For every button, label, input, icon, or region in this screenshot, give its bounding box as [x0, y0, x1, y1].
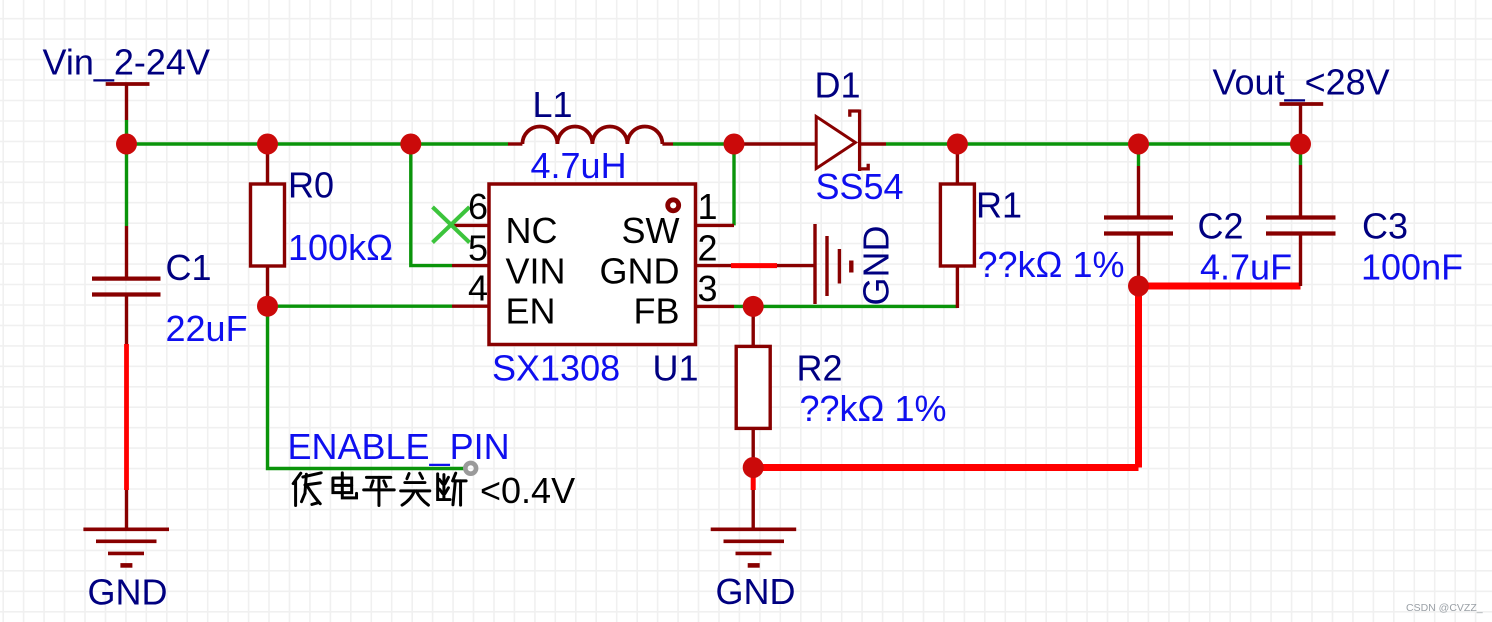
inductor L1 stub left	[508, 142, 522, 145]
ENABLE_PIN endpoint pad	[465, 463, 476, 474]
wire ENABLE down and right	[268, 306, 465, 468]
diode D1 anode wire	[734, 142, 816, 145]
svg-text:SW: SW	[622, 210, 680, 251]
resistor R0 stem top	[266, 144, 269, 184]
resistor R1 stem bottom	[956, 266, 959, 308]
wires red thick	[127, 266, 1301, 490]
wire FB to R1	[734, 305, 957, 308]
svg-text:??kΩ 1%: ??kΩ 1%	[800, 388, 947, 429]
svg-text:R1: R1	[976, 184, 1022, 225]
svg-text:1: 1	[698, 186, 718, 227]
wire C1 to GND red	[124, 344, 129, 490]
svg-text:R0: R0	[288, 164, 334, 205]
wire C3 top green	[1299, 144, 1302, 165]
svg-text:4.7uH: 4.7uH	[531, 145, 627, 186]
node FB junction	[743, 296, 764, 317]
svg-text:L1: L1	[533, 84, 573, 125]
U1 pin 1 stub	[696, 224, 735, 227]
wire U1 pin2 red segment	[731, 263, 777, 268]
node C2 bottom junction	[1128, 276, 1149, 297]
svg-text:SX1308: SX1308	[492, 348, 620, 389]
wire VIN vertical	[411, 144, 452, 266]
svg-text:U1: U1	[653, 348, 699, 389]
wire R2 gnd red stub	[751, 470, 756, 490]
capacitor C1 stub bottom	[125, 297, 128, 345]
svg-text:FB: FB	[633, 291, 679, 332]
ground GND1 stem	[125, 490, 128, 529]
resistor R1 stem top	[956, 144, 959, 184]
svg-text:C2: C2	[1198, 206, 1244, 247]
wires green	[127, 120, 1301, 469]
capacitor C2 stub bottom	[1137, 236, 1140, 287]
ground GND2 bars rotated	[813, 224, 816, 304]
resistor R2 body	[736, 346, 770, 428]
capacitor C3 stub top	[1299, 165, 1302, 216]
wire EN from R0	[268, 305, 453, 308]
inductor L1 humps	[522, 127, 662, 144]
wire C2 to C3 bottom	[1139, 283, 1301, 290]
U1 pin 5 stub	[452, 264, 489, 267]
svg-text:C1: C1	[166, 247, 212, 288]
ground GND3 bars	[711, 527, 797, 531]
svg-text:C3: C3	[1362, 206, 1408, 247]
svg-text:Vout_<28V: Vout_<28V	[1213, 62, 1390, 103]
node R0 top junction	[257, 134, 278, 155]
ground GND3 stem	[752, 490, 755, 529]
wire C2 bottom vertical	[1135, 286, 1142, 468]
capacitor C1 stub top	[125, 226, 128, 277]
svg-text:??kΩ 1%: ??kΩ 1%	[978, 244, 1125, 285]
svg-text:NC: NC	[506, 210, 558, 251]
resistor R2 stem bottom	[752, 428, 755, 470]
wire C2 top green	[1137, 144, 1140, 166]
svg-text:2: 2	[698, 228, 718, 269]
node C2 top junction	[1128, 134, 1149, 155]
diode D1 cathode wire	[860, 142, 886, 145]
capacitor C1 plates	[92, 277, 161, 281]
capacitor C2 plates	[1104, 215, 1173, 219]
capacitor C3 stub bottom	[1299, 236, 1302, 287]
svg-text:5: 5	[468, 228, 488, 269]
svg-text:CSDN @CVZZ_: CSDN @CVZZ_	[1406, 602, 1483, 614]
svg-text:100kΩ: 100kΩ	[288, 227, 393, 268]
node C3/Vout junction	[1290, 134, 1311, 155]
power flag Vout stem	[1299, 104, 1302, 144]
svg-text:GND: GND	[600, 250, 680, 291]
power flag Vin bar	[106, 82, 150, 86]
node Vin/C1 junction	[116, 134, 137, 155]
svg-text:SS54: SS54	[816, 166, 904, 207]
U1 pin 4 stub	[452, 305, 489, 308]
U1 pin 3 stub	[696, 305, 735, 308]
U1 pin1 dot indicator	[668, 200, 679, 211]
wire rail L1 to SW node	[673, 142, 734, 145]
node VIN junction	[400, 134, 421, 155]
svg-text:GND: GND	[856, 226, 897, 306]
node D1/R1 junction	[947, 134, 968, 155]
wire SW vertical	[732, 144, 735, 225]
svg-text:GND: GND	[88, 572, 168, 613]
svg-text:6: 6	[468, 186, 488, 227]
node R2 bottom junction	[743, 457, 764, 478]
resistor R0 stem bottom	[266, 266, 269, 306]
svg-text:VIN: VIN	[506, 250, 566, 291]
svg-text:Vin_2-24V: Vin_2-24V	[43, 41, 210, 82]
svg-text:4.7uF: 4.7uF	[1200, 247, 1292, 288]
inductor L1 stub right	[662, 142, 673, 145]
dark red component strokes	[83, 84, 1335, 565]
ground GND1 bars	[83, 527, 169, 531]
pin numbers	[468, 186, 488, 309]
wire R2 to C2 bottom horizontal	[753, 464, 1138, 471]
U1 pin 2 stub	[696, 264, 732, 267]
resistor R0 body	[251, 184, 285, 266]
svg-text:ENABLE_PIN: ENABLE_PIN	[288, 426, 510, 467]
svg-text:3: 3	[698, 268, 718, 309]
power flag Vin stem	[125, 84, 128, 120]
svg-text:100nF: 100nF	[1361, 247, 1463, 288]
capacitor C2 stub top	[1137, 166, 1140, 216]
diode D1 schottky bar	[850, 110, 868, 172]
node R0 bottom / EN junction	[257, 296, 278, 317]
U1 pin 6 stub	[452, 224, 489, 227]
wire Vin stem green part	[125, 120, 128, 144]
no-connect X on pin 6	[433, 207, 470, 243]
pin names	[506, 210, 566, 332]
wire rail diode cathode to Vout	[886, 142, 1301, 145]
capacitor C3 plates	[1266, 215, 1336, 219]
diode D1 triangle	[816, 117, 855, 169]
svg-text:4: 4	[468, 268, 488, 309]
annotation Chinese text (hand-drawn glyphs)	[293, 473, 466, 506]
node SW/L1/D1 junction	[724, 134, 745, 155]
resistor R2 stem top	[752, 306, 755, 346]
resistor R1 body	[940, 184, 974, 266]
svg-text:D1: D1	[815, 65, 861, 106]
power flag Vout bar	[1280, 102, 1324, 106]
svg-text:22uF: 22uF	[166, 308, 248, 349]
svg-text:EN: EN	[506, 291, 556, 332]
IC U1 SX1308 body	[489, 184, 696, 345]
svg-text:<0.4V: <0.4V	[480, 470, 575, 511]
wire main rail left	[127, 142, 509, 145]
ground GND2 stem (right of U1)	[777, 264, 815, 267]
svg-text:R2: R2	[797, 347, 843, 388]
svg-text:GND: GND	[716, 571, 796, 612]
wire C1 stem green part	[125, 144, 128, 226]
